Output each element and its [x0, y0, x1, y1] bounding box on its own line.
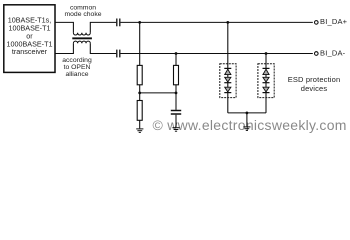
node: ESD rail center — [246, 112, 249, 115]
diode D2a (top, cathode up) — [263, 68, 270, 74]
ground (below R3) — [136, 129, 143, 133]
diode D2c (bottom, cathode down) — [263, 87, 270, 92]
wire: R1 bottom lead — [139, 85, 141, 93]
resistor R2 — [174, 65, 179, 84]
ESD protection device box 1 (dashed) — [220, 64, 236, 98]
svg-text:ESD protection: ESD protection — [288, 75, 341, 84]
diode D1c (bottom, cathode down) — [224, 87, 231, 92]
wire: C3 top lead — [175, 93, 177, 110]
common mode choke L1: bottom winding — [73, 41, 90, 43]
transceiver box U1 — [4, 5, 55, 73]
wire: ESD ground lead — [246, 113, 248, 127]
label: common mode choke — [64, 4, 101, 18]
ground (below ESD rail) — [243, 127, 250, 130]
node: junction bottom line / R2 — [175, 52, 178, 55]
diode D2b (middle, cathode down) — [263, 77, 270, 82]
diode D1a (top, cathode up) — [224, 68, 231, 74]
svg-text:mode choke: mode choke — [64, 11, 101, 18]
svg-text:devices: devices — [301, 84, 328, 93]
wire: box to choke, top — [55, 22, 73, 32]
wire: choke to C1, top — [90, 22, 116, 32]
capacitor C2 (series, bottom line) — [117, 50, 120, 58]
terminal circle BI_DA- — [315, 52, 319, 56]
resistor R1 — [137, 65, 142, 84]
wire: bottom line BI_DA- — [120, 53, 312, 55]
wire: ESD2 vertical — [265, 54, 267, 113]
common mode choke L1: core bar — [72, 37, 92, 39]
wire: ESD1 vertical — [227, 22, 229, 113]
label: ESD protection devices — [288, 75, 341, 93]
wire: R3 top lead — [139, 93, 141, 101]
terminal circle BI_DA+ — [315, 21, 319, 25]
wire: ESD common rail — [228, 112, 266, 114]
wire: R2 top lead — [175, 54, 177, 66]
svg-text:BI_DA+: BI_DA+ — [320, 17, 348, 26]
wire: R1 top lead — [139, 22, 141, 65]
common mode choke L1: top winding — [73, 33, 90, 35]
wire: top line BI_DA+ — [120, 21, 312, 23]
node: junction top line / ESD1 — [226, 21, 229, 24]
svg-text:according: according — [62, 57, 92, 64]
capacitor C3 — [171, 111, 181, 115]
wire: center tap rail — [140, 92, 176, 94]
node: R1/R3 junction — [138, 92, 141, 95]
wire: R3 bottom lead — [139, 120, 141, 128]
node: R2/C3 junction — [175, 92, 178, 95]
ESD protection device box 2 (dashed) — [258, 64, 274, 98]
wire: C3 bottom lead — [175, 115, 177, 128]
wire: R2 bottom lead — [175, 85, 177, 93]
svg-text:transceiver: transceiver — [12, 47, 48, 56]
node: junction top line / R1 — [138, 21, 141, 24]
svg-text:BI_DA-: BI_DA- — [320, 48, 346, 57]
capacitor C1 (series, top line) — [117, 19, 120, 27]
ground (below C3) — [172, 128, 179, 132]
svg-text:alliance: alliance — [65, 71, 88, 78]
resistor R3 — [137, 101, 142, 121]
label: according to OPEN alliance — [62, 57, 92, 78]
svg-text:to OPEN: to OPEN — [64, 64, 91, 71]
diode D1b (middle, cathode down) — [224, 77, 231, 82]
node: junction bottom line / ESD2 — [265, 52, 268, 55]
wire: choke to C2, bottom — [90, 43, 116, 53]
wire: box to choke, bottom — [55, 43, 73, 53]
svg-text:© www.electronicsweekly.com: © www.electronicsweekly.com — [153, 117, 347, 133]
